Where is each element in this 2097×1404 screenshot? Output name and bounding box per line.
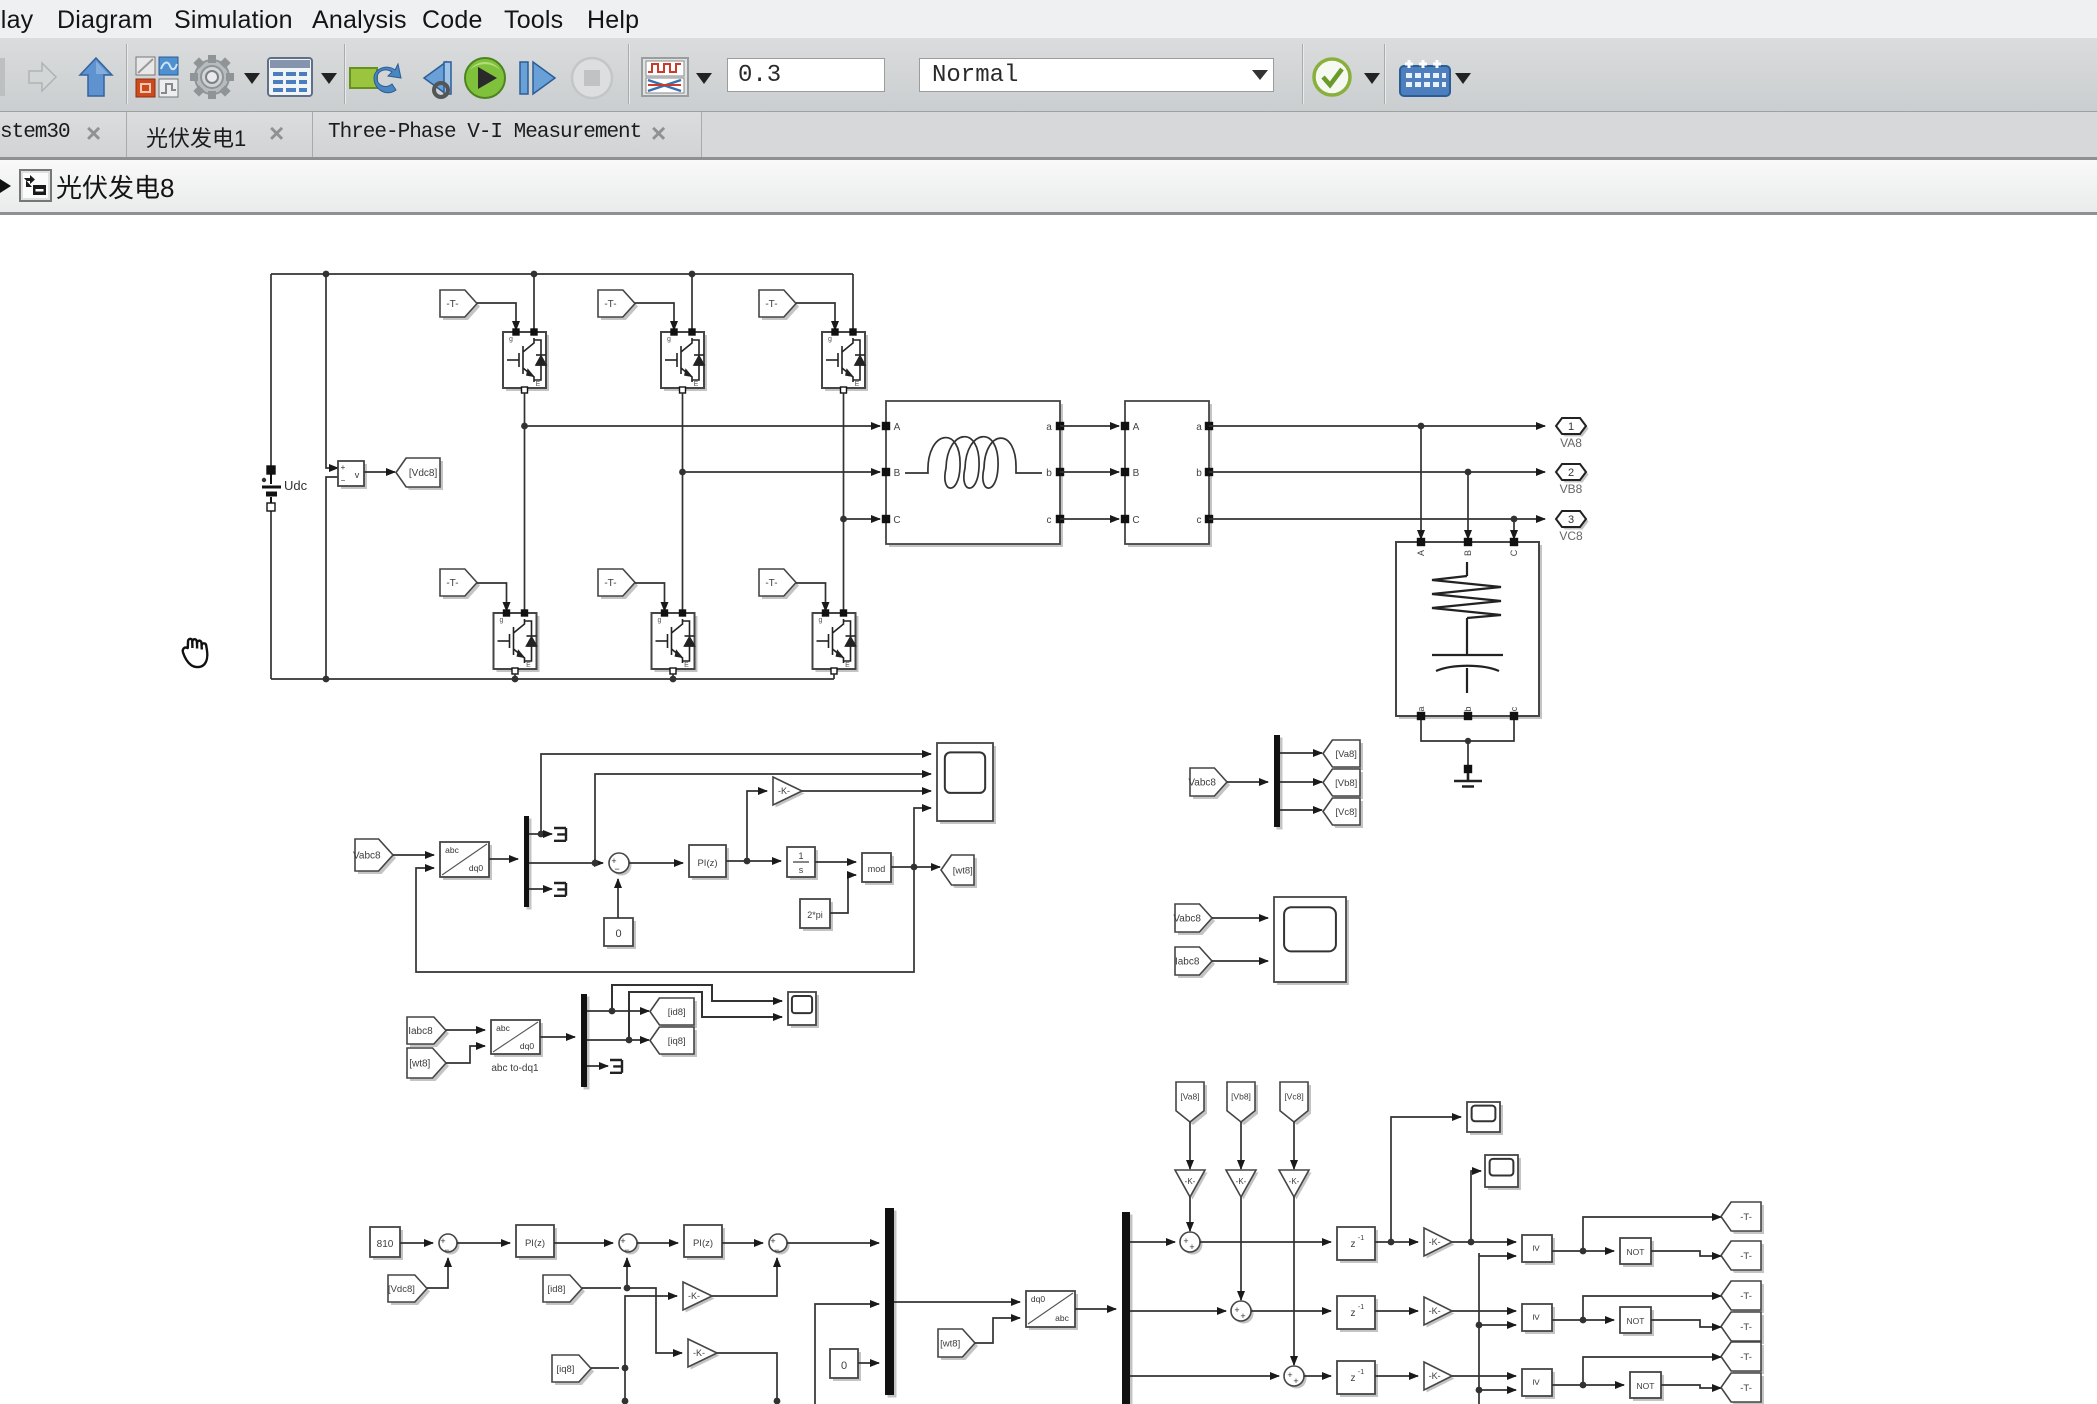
svg-text:-T-: -T- (1740, 1212, 1752, 1223)
svg-text:PI(z): PI(z) (693, 1238, 713, 1249)
svg-text:−: − (624, 1245, 629, 1255)
svg-text:−: − (774, 1245, 779, 1255)
svg-text:B: B (894, 468, 901, 479)
svg-text:NOT: NOT (1637, 1381, 1655, 1391)
svg-text:VB8: VB8 (1560, 482, 1583, 496)
svg-text:-1: -1 (1358, 1235, 1364, 1242)
svg-text:[wt8]: [wt8] (940, 1338, 960, 1349)
svg-text:+: + (1287, 1370, 1292, 1380)
svg-text:-T-: -T- (446, 299, 458, 310)
svg-text:dq0: dq0 (520, 1041, 534, 1051)
svg-text:mod: mod (868, 864, 886, 874)
svg-text:-T-: -T- (1740, 1251, 1752, 1262)
svg-text:+: + (1240, 1311, 1245, 1321)
svg-text:3: 3 (1568, 514, 1574, 526)
svg-text:≥: ≥ (1530, 1245, 1542, 1251)
svg-text:−: − (341, 476, 346, 485)
svg-text:[Va8]: [Va8] (1180, 1091, 1199, 1101)
svg-text:c: c (1197, 515, 1202, 526)
svg-text:B: B (1463, 550, 1473, 556)
svg-text:[Vb8]: [Vb8] (1335, 778, 1357, 789)
svg-text:g: g (667, 336, 671, 343)
svg-text:[Vdc8]: [Vdc8] (388, 1284, 415, 1295)
svg-text:c: c (1047, 515, 1052, 526)
svg-text:-K-: -K- (1289, 1177, 1300, 1186)
svg-text:-K-: -K- (1185, 1177, 1196, 1186)
svg-text:C: C (893, 515, 900, 526)
svg-text:+: + (1293, 1376, 1298, 1386)
svg-text:E: E (845, 662, 850, 669)
svg-text:B: B (1133, 468, 1140, 479)
svg-text:abc to-dq1: abc to-dq1 (491, 1063, 539, 1074)
svg-text:-T-: -T- (1740, 1383, 1752, 1394)
svg-text:a: a (1046, 422, 1052, 433)
svg-text:0: 0 (615, 928, 621, 940)
svg-text:dq0: dq0 (1031, 1294, 1045, 1304)
svg-text:-T-: -T- (1740, 1322, 1752, 1333)
svg-text:-T-: -T- (765, 299, 777, 310)
svg-text:E: E (684, 662, 689, 669)
svg-text:VC8: VC8 (1559, 529, 1583, 543)
svg-text:+: + (1183, 1236, 1188, 1246)
svg-text:Udc: Udc (284, 478, 308, 493)
svg-text:C: C (1132, 515, 1139, 526)
svg-text:1: 1 (798, 851, 803, 861)
svg-text:-K-: -K- (693, 1348, 705, 1358)
svg-text:[Va8]: [Va8] (1335, 749, 1356, 760)
svg-text:+: + (1189, 1242, 1194, 1252)
svg-text:Vabc8: Vabc8 (1188, 778, 1216, 789)
svg-text:-T-: -T- (765, 578, 777, 589)
svg-text:[Vc8]: [Vc8] (1335, 807, 1357, 818)
svg-text:PI(z): PI(z) (525, 1238, 545, 1249)
svg-text:c: c (1509, 706, 1519, 711)
svg-text:g: g (500, 617, 504, 624)
svg-text:[iq8]: [iq8] (668, 1036, 686, 1047)
svg-text:g: g (828, 336, 832, 343)
svg-text:0: 0 (841, 1360, 847, 1372)
svg-text:s: s (799, 865, 804, 875)
svg-text:abc: abc (496, 1023, 510, 1033)
svg-text:g: g (509, 336, 513, 343)
svg-text:-1: -1 (1358, 1304, 1364, 1311)
svg-text:a: a (1416, 706, 1426, 711)
svg-text:E: E (526, 662, 531, 669)
svg-text:+: + (1234, 1305, 1239, 1315)
svg-text:abc: abc (1055, 1313, 1069, 1323)
svg-text:[wt8]: [wt8] (953, 865, 973, 876)
svg-text:C: C (1509, 549, 1519, 556)
svg-text:z: z (1351, 1373, 1356, 1384)
svg-text:-T-: -T- (1740, 1291, 1752, 1302)
svg-text:[id8]: [id8] (668, 1007, 686, 1018)
svg-text:[wt8]: [wt8] (409, 1059, 430, 1070)
svg-text:-T-: -T- (1740, 1352, 1752, 1363)
svg-text:≥: ≥ (1530, 1379, 1542, 1385)
svg-text:[Vdc8]: [Vdc8] (409, 468, 438, 479)
svg-text:2*pi: 2*pi (807, 910, 823, 920)
svg-text:z: z (1351, 1308, 1356, 1319)
svg-text:b: b (1463, 706, 1473, 711)
svg-text:g: g (819, 617, 823, 624)
svg-text:b: b (1196, 468, 1202, 479)
svg-text:VA8: VA8 (1560, 436, 1582, 450)
svg-text:-K-: -K- (1429, 1306, 1441, 1316)
svg-text:-K-: -K- (1429, 1237, 1441, 1247)
svg-text:-K-: -K- (1429, 1371, 1441, 1381)
svg-text:abc: abc (445, 845, 459, 855)
svg-text:v: v (355, 470, 360, 480)
svg-text:z: z (1351, 1239, 1356, 1250)
svg-text:[Vc8]: [Vc8] (1284, 1091, 1303, 1101)
svg-text:≥: ≥ (1530, 1314, 1542, 1320)
svg-text:NOT: NOT (1627, 1247, 1645, 1257)
svg-text:Iabc8: Iabc8 (408, 1026, 433, 1037)
svg-text:−: − (444, 1245, 449, 1255)
svg-text:[Vb8]: [Vb8] (1231, 1091, 1251, 1101)
svg-text:[id8]: [id8] (547, 1284, 565, 1295)
svg-text:PI(z): PI(z) (697, 858, 717, 869)
svg-text:2: 2 (1568, 467, 1574, 479)
svg-text:-T-: -T- (604, 299, 616, 310)
svg-text:-K-: -K- (1236, 1177, 1247, 1186)
svg-text:a: a (1196, 422, 1202, 433)
svg-text:810: 810 (377, 1239, 394, 1250)
svg-text:A: A (1416, 550, 1426, 556)
svg-text:E: E (694, 381, 699, 388)
svg-text:−: − (614, 864, 619, 874)
svg-text:E: E (855, 381, 860, 388)
svg-text:[iq8]: [iq8] (556, 1364, 574, 1375)
svg-text:A: A (1133, 422, 1140, 433)
svg-text:dq0: dq0 (469, 863, 483, 873)
svg-text:+: + (341, 463, 346, 472)
svg-text:Vabc8: Vabc8 (1173, 914, 1201, 925)
svg-text:1: 1 (1568, 421, 1574, 433)
svg-text:-1: -1 (1358, 1369, 1364, 1376)
svg-text:Vabc8: Vabc8 (353, 851, 381, 862)
svg-text:A: A (894, 422, 901, 433)
svg-text:-K-: -K- (688, 1291, 700, 1301)
svg-text:-T-: -T- (604, 578, 616, 589)
svg-text:-T-: -T- (446, 578, 458, 589)
svg-text:g: g (658, 617, 662, 624)
svg-text:-K-: -K- (778, 786, 790, 796)
svg-text:E: E (536, 381, 541, 388)
svg-text:Iabc8: Iabc8 (1175, 957, 1200, 968)
svg-text:b: b (1046, 468, 1052, 479)
svg-text:NOT: NOT (1627, 1316, 1645, 1326)
